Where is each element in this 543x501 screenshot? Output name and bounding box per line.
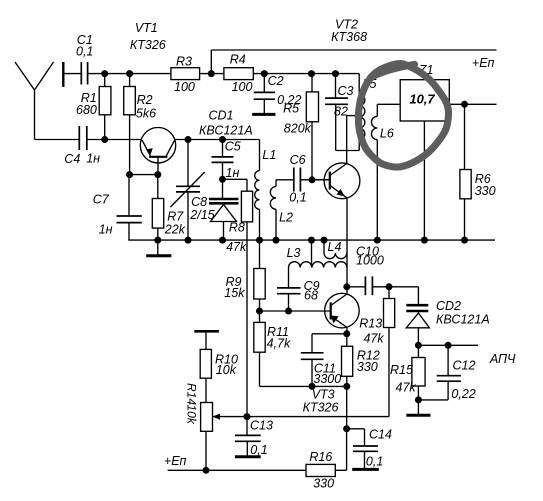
svg-text:C7: C7 bbox=[93, 193, 110, 207]
svg-text:R15: R15 bbox=[390, 363, 413, 377]
svg-text:VT1: VT1 bbox=[135, 21, 158, 35]
svg-text:100: 100 bbox=[174, 80, 195, 94]
svg-text:R8: R8 bbox=[229, 221, 245, 235]
svg-text:47k: 47k bbox=[363, 332, 384, 346]
svg-text:+Еп: +Еп bbox=[472, 56, 495, 70]
svg-text:0,22: 0,22 bbox=[451, 387, 475, 401]
svg-text:15k: 15k bbox=[224, 286, 245, 300]
svg-text:CD1: CD1 bbox=[209, 109, 234, 123]
svg-text:L3: L3 bbox=[287, 246, 301, 260]
svg-text:КТ368: КТ368 bbox=[331, 30, 367, 44]
svg-text:КВС121А: КВС121А bbox=[436, 312, 490, 326]
svg-text:47k: 47k bbox=[396, 381, 417, 395]
svg-text:1н: 1н bbox=[86, 151, 100, 165]
svg-text:CD2: CD2 bbox=[436, 299, 461, 313]
svg-text:68: 68 bbox=[304, 289, 318, 303]
svg-text:5k6: 5k6 bbox=[136, 107, 156, 121]
svg-text:КВС121А: КВС121А bbox=[199, 123, 253, 137]
svg-text:R13: R13 bbox=[359, 316, 382, 330]
svg-text:10k: 10k bbox=[185, 405, 199, 425]
svg-text:22k: 22k bbox=[164, 222, 186, 236]
svg-text:L4: L4 bbox=[328, 240, 342, 254]
svg-text:L6: L6 bbox=[380, 127, 394, 141]
svg-text:КТ326: КТ326 bbox=[130, 38, 166, 52]
svg-text:3300: 3300 bbox=[313, 372, 341, 386]
svg-text:C12: C12 bbox=[453, 359, 476, 373]
svg-text:82: 82 bbox=[334, 104, 348, 118]
svg-text:L2: L2 bbox=[279, 211, 293, 225]
svg-text:0,1: 0,1 bbox=[366, 455, 383, 469]
svg-text:330: 330 bbox=[313, 477, 334, 491]
svg-text:R3: R3 bbox=[176, 54, 192, 68]
svg-text:C4: C4 bbox=[64, 152, 80, 166]
svg-text:0,1: 0,1 bbox=[250, 443, 267, 457]
svg-text:R5: R5 bbox=[283, 102, 299, 116]
svg-text:R16: R16 bbox=[309, 450, 332, 464]
svg-text:10,7: 10,7 bbox=[409, 92, 435, 107]
svg-text:47k: 47k bbox=[226, 240, 247, 254]
svg-text:100: 100 bbox=[232, 80, 253, 94]
svg-text:0,1: 0,1 bbox=[289, 191, 306, 205]
svg-text:C2: C2 bbox=[268, 74, 284, 88]
svg-text:330: 330 bbox=[475, 184, 496, 198]
svg-text:C13: C13 bbox=[250, 418, 273, 432]
svg-text:R14: R14 bbox=[185, 383, 199, 405]
svg-text:2/15: 2/15 bbox=[189, 208, 214, 222]
svg-text:C3: C3 bbox=[338, 84, 354, 98]
svg-text:КТ326: КТ326 bbox=[303, 400, 339, 414]
svg-text:L1: L1 bbox=[262, 148, 276, 162]
svg-text:4,7k: 4,7k bbox=[267, 337, 291, 351]
svg-text:1н: 1н bbox=[226, 166, 240, 180]
svg-text:0,1: 0,1 bbox=[76, 45, 93, 59]
svg-text:10k: 10k bbox=[216, 363, 237, 377]
svg-text:R2: R2 bbox=[137, 93, 153, 107]
svg-text:C5: C5 bbox=[225, 140, 241, 154]
svg-text:1000: 1000 bbox=[356, 254, 384, 268]
svg-text:АПЧ: АПЧ bbox=[489, 352, 516, 366]
svg-text:+Еп: +Еп bbox=[164, 454, 187, 468]
svg-text:1н: 1н bbox=[99, 222, 113, 236]
svg-text:C6: C6 bbox=[290, 153, 306, 167]
svg-text:680: 680 bbox=[76, 103, 97, 117]
svg-text:820k: 820k bbox=[284, 122, 312, 136]
svg-text:330: 330 bbox=[357, 360, 378, 374]
svg-text:C14: C14 bbox=[369, 427, 392, 441]
svg-text:R4: R4 bbox=[230, 53, 246, 67]
